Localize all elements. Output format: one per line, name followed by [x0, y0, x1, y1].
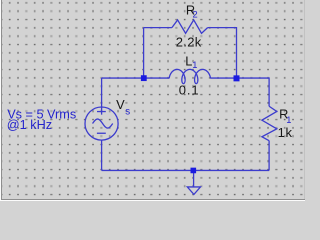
svg-text:1: 1 [286, 115, 291, 125]
svg-text:V: V [116, 97, 125, 112]
junction node A [141, 75, 147, 81]
wire source top stem (forms plus vertical) [101, 78, 103, 115]
svg-text:2.2k: 2.2k [176, 35, 202, 50]
wire R2 left lead [144, 27, 172, 29]
resistor R1 [262, 106, 277, 140]
svg-text:0.1: 0.1 [179, 82, 200, 97]
wire node A up to R2 branch [143, 28, 145, 78]
wire node A to inductor [144, 77, 170, 79]
voltage source minus sign [97, 132, 106, 134]
voltage source sine wave [93, 119, 113, 128]
svg-text:@1 kHz: @1 kHz [7, 118, 52, 132]
resistor R2 [172, 20, 208, 33]
ground triangle [187, 187, 200, 195]
wire source top to node A [102, 77, 144, 79]
ground stem [193, 170, 195, 187]
wire R2 right lead [208, 28, 237, 78]
voltage source plus sign crossbar [97, 111, 106, 113]
junction node B [234, 75, 240, 81]
svg-text:s: s [125, 107, 130, 118]
inductor L1 [169, 69, 210, 83]
wire R1 bottom lead [268, 141, 270, 171]
svg-text:2: 2 [193, 10, 198, 20]
wire node B to R1 corner [237, 78, 270, 106]
wire source bottom stem [101, 140, 103, 170]
junction ground node [191, 168, 197, 174]
wire inductor to node B [210, 77, 236, 79]
wire bottom rail [102, 169, 269, 171]
svg-text:1k: 1k [278, 125, 293, 140]
svg-text:1: 1 [192, 60, 197, 70]
voltage source V_s circle [85, 107, 118, 140]
